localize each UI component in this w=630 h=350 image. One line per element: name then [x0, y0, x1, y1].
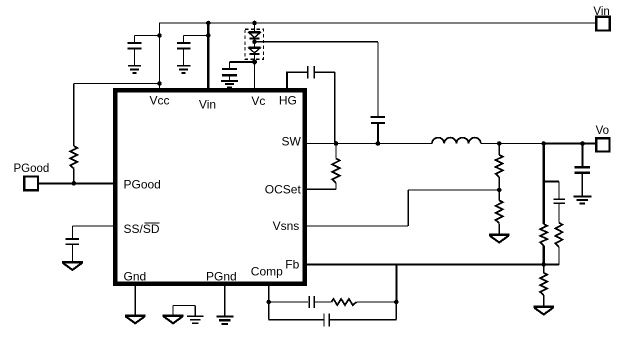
resistor R2 OCSet [332, 159, 340, 183]
wire L1 to divider [481, 143, 544, 145]
diode D2 [249, 46, 261, 48]
wire Vo rail thick [544, 142, 597, 144]
wire PGood pin [39, 182, 116, 184]
dashed box around D1 D2 [245, 29, 263, 59]
resistor R5 Vo-Fb [540, 224, 547, 245]
svg-text:PGood: PGood [124, 177, 161, 191]
wire pullup vertical [73, 84, 75, 147]
wire C3 tap [230, 61, 255, 63]
wire pullup horizontal [74, 83, 160, 85]
resistor R3 divider upper [498, 144, 500, 155]
wire branch tee [544, 180, 559, 182]
ground C6 [574, 195, 592, 197]
node Vo tee junction [541, 141, 546, 146]
wire diode midpoint to C5 [255, 41, 378, 43]
op-amp controller IC U1 body [115, 90, 305, 283]
capacitor C8 comp [308, 296, 310, 308]
wire C2 tap [184, 35, 209, 37]
ground tie earth [187, 315, 203, 317]
capacitor C9 comp [323, 313, 325, 326]
diode D1 [249, 31, 261, 33]
capacitor C5 bootstrap [371, 116, 385, 118]
capacitor C6 output [575, 166, 590, 169]
wire comp node to Fb line [395, 265, 397, 303]
wire HG pin up [286, 72, 288, 88]
resistor R8 comp [331, 299, 356, 305]
wire OCSet resistor top lead [335, 144, 337, 159]
node diode midpoint [252, 40, 257, 45]
ground arrow C10 [62, 261, 83, 263]
wire C9 branch [268, 302, 270, 320]
wire R3 to node [498, 177, 500, 190]
wire D2 lower lead [254, 54, 256, 62]
capacitor C1 [128, 42, 142, 44]
ground tie arrow [163, 315, 184, 317]
svg-text:HG: HG [279, 93, 297, 107]
wire Comp pin [268, 284, 270, 302]
wire R4 leads [498, 190, 500, 200]
resistor R7 Fb-gnd [543, 265, 545, 273]
svg-text:Vo: Vo [596, 125, 609, 137]
ground C1 [128, 65, 141, 67]
wire HG to C4 [286, 71, 307, 73]
wire C10 lower lead [71, 244, 73, 262]
wire D1-D2 [254, 39, 256, 48]
wire C3 stub [229, 75, 231, 80]
node Vcc pullup tap [157, 81, 162, 86]
ground arrow R7 [533, 306, 554, 308]
capacitor C2 [177, 42, 191, 44]
terminal PGood [24, 177, 38, 191]
capacitor C10 soft-start [66, 238, 80, 240]
node Vc junction [252, 59, 257, 64]
wire Gnd pin [134, 284, 136, 316]
wire C8 to R8 [314, 301, 331, 303]
wire ground tie [172, 306, 174, 316]
svg-text:Gnd: Gnd [124, 270, 147, 284]
wire PGnd pin [224, 284, 226, 316]
capacitor C7 feedforward [553, 198, 564, 200]
svg-text:PGood: PGood [14, 163, 50, 175]
node Vin cap tap [206, 33, 211, 38]
svg-text:Fb: Fb [285, 258, 299, 272]
wire Fb line [305, 264, 559, 266]
wire Vcc vertical [159, 22, 161, 88]
svg-text:Comp: Comp [251, 265, 283, 279]
wire C7 to R6 [558, 203, 560, 223]
wire diode top lead [254, 23, 256, 32]
node rail-diode junction [252, 21, 257, 26]
wire Vc pin vertical [254, 62, 256, 88]
terminal Vo [596, 138, 609, 151]
wire Vin top rail [160, 22, 598, 24]
wire C9 to node [330, 319, 396, 321]
wire C4 to SW drop [315, 71, 335, 73]
resistor R6 feedforward [555, 223, 562, 247]
wire SS pin [72, 225, 115, 227]
svg-text:PGnd: PGnd [206, 270, 237, 284]
wire Vo branch vertical [543, 144, 545, 225]
node Vo cap junction [580, 141, 585, 146]
node Vsns junction [497, 188, 502, 193]
node Fb junction [541, 262, 546, 267]
wire Vin pin vertical [207, 22, 209, 88]
wire C6 top lead [581, 144, 583, 166]
node SW-C5 junction [376, 141, 381, 146]
svg-text:SS/SD: SS/SD [124, 222, 160, 236]
svg-text:Vin: Vin [199, 98, 216, 112]
svg-text:OCSet: OCSet [265, 183, 302, 197]
resistor R1 PGood pull-up [70, 146, 77, 168]
ground C2 [177, 65, 190, 67]
ground arrow Gnd [125, 315, 146, 317]
wire C2 lower lead [183, 48, 185, 65]
ground arrow R4 [489, 234, 510, 236]
wire R8 to Fb drop [356, 301, 396, 303]
wire R1 to PGood [73, 169, 75, 184]
resistor R4 divider lower [496, 200, 503, 223]
ground C3 [221, 80, 238, 82]
wire Comp to C8 [269, 301, 308, 303]
wire R5 lower lead [543, 246, 545, 265]
capacitor C3 Vc bypass [222, 68, 237, 70]
terminal Vin box [596, 17, 610, 31]
node comp-Fb junction [394, 300, 399, 305]
svg-text:Vsns: Vsns [273, 219, 300, 233]
wire SW pin [305, 143, 432, 145]
wire C5 to SW [377, 123, 379, 144]
svg-text:Vin: Vin [593, 6, 609, 18]
wire C1 tap [135, 35, 160, 37]
capacitor C4 HG coupling [307, 66, 309, 78]
node PGood junction [72, 181, 77, 186]
wire Vsns pin [305, 225, 408, 227]
svg-text:Vc: Vc [251, 94, 265, 108]
node SW-OCSet junction [334, 141, 339, 146]
svg-text:SW: SW [281, 135, 301, 149]
wire C1 lower lead [134, 48, 136, 65]
wire R6 lower lead [558, 247, 560, 265]
svg-text:Vcc: Vcc [149, 94, 169, 108]
wire C7 top lead [558, 181, 560, 198]
inductor L1 [432, 138, 481, 144]
node Vcc cap tap [157, 33, 162, 38]
node rail-Vin junction [206, 21, 211, 26]
node L1 output junction [497, 141, 502, 146]
node Comp junction [266, 300, 271, 305]
wire OCSet pin [335, 183, 337, 189]
wire C6 lower lead [581, 173, 583, 196]
ground PGnd [216, 315, 233, 317]
